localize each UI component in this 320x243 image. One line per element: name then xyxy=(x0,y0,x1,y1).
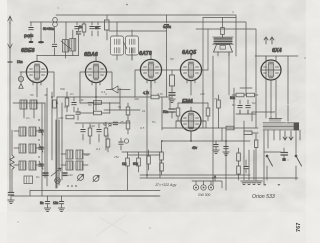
trimmer pot xyxy=(124,139,128,143)
svg-text:50+50u: 50+50u xyxy=(43,27,54,31)
wire screen bus xyxy=(56,15,236,56)
resistor R28 xyxy=(126,121,130,134)
capacitor C5 xyxy=(96,22,100,36)
svg-text:10n: 10n xyxy=(90,124,95,128)
capacitor C20 top mid xyxy=(164,15,168,56)
connector (3 pins) xyxy=(192,175,222,190)
svg-text:767: 767 xyxy=(296,223,302,232)
resistor R12 xyxy=(176,103,180,121)
svg-text:2n: 2n xyxy=(69,92,74,96)
svg-text:4,7k: 4,7k xyxy=(157,92,163,96)
wire B+ bus top xyxy=(30,22,246,95)
tube V2 6BA6 xyxy=(80,56,112,103)
svg-text:50: 50 xyxy=(88,103,92,107)
resistor R10 xyxy=(143,95,170,99)
capacitor C21 xyxy=(76,108,80,120)
resistor R2 xyxy=(105,15,110,40)
svg-text:25: 25 xyxy=(109,87,114,91)
wire xyxy=(264,151,281,153)
svg-text:100: 100 xyxy=(58,116,63,120)
wire xyxy=(151,56,170,130)
power transformer T3 xyxy=(252,56,300,185)
band filter row 2 xyxy=(14,144,44,153)
resistor R29 xyxy=(217,95,221,128)
ground (antenna earth) xyxy=(8,193,13,196)
svg-text:50n: 50n xyxy=(163,110,169,114)
svg-text:6AQ5: 6AQ5 xyxy=(182,50,197,56)
svg-text:GW 300: GW 300 xyxy=(198,193,211,197)
svg-text:25n: 25n xyxy=(113,155,119,159)
capacitor C3 xyxy=(75,22,79,34)
resistor R13 xyxy=(206,103,210,121)
band filter row 4 xyxy=(14,161,44,170)
svg-text:1M: 1M xyxy=(79,98,84,102)
resistor R1 xyxy=(82,22,86,36)
tube V3 6AT6 xyxy=(135,55,167,97)
diode detector xyxy=(106,86,130,93)
resistor R7 xyxy=(80,111,110,115)
capacitor C18 + ground xyxy=(244,160,248,173)
electrolytic caps xyxy=(43,173,48,175)
scan scratches xyxy=(96,97,305,236)
capacitor C19 xyxy=(119,138,123,150)
svg-text:6AT6: 6AT6 xyxy=(139,51,153,57)
svg-text:50: 50 xyxy=(170,57,174,61)
svg-text:1n: 1n xyxy=(79,25,83,29)
IF transformer T2 xyxy=(111,22,139,60)
resistor R8 xyxy=(88,124,92,144)
band filter row 1 xyxy=(14,127,44,136)
tube V6 EM4 magic eye xyxy=(176,107,206,141)
capacitor C1 xyxy=(29,22,34,43)
resistor R25 xyxy=(66,115,74,119)
capacitor C10 xyxy=(81,124,85,140)
svg-text:2n: 2n xyxy=(25,116,30,120)
antenna xyxy=(8,16,12,193)
svg-text:JT=+322 Agy: JT=+322 Agy xyxy=(154,183,176,187)
band filter row 3 xyxy=(61,150,90,159)
capacitor C11 xyxy=(97,124,101,142)
wire xyxy=(244,121,254,180)
resistor R17 xyxy=(160,148,164,163)
capacitor C8 + ground xyxy=(58,202,64,212)
tone pot xyxy=(93,175,99,181)
wire xyxy=(75,122,130,124)
svg-text:7k: 7k xyxy=(214,97,218,101)
capacitor C7 + ground xyxy=(44,202,50,212)
svg-text:50: 50 xyxy=(95,26,99,30)
tuning gang xyxy=(56,120,59,188)
resistor R27 xyxy=(126,103,130,121)
svg-text:2k: 2k xyxy=(141,109,146,113)
svg-text:22n: 22n xyxy=(67,173,73,177)
wire xyxy=(203,90,222,141)
resistor R19 xyxy=(237,148,241,166)
heater arrows xyxy=(283,131,293,140)
svg-text:0,1: 0,1 xyxy=(101,90,106,94)
wire xyxy=(122,152,162,155)
capacitor C22 mains xyxy=(281,148,288,161)
svg-text:8u: 8u xyxy=(36,175,40,179)
svg-text:0,5: 0,5 xyxy=(140,126,145,130)
resistor R11 xyxy=(170,70,175,90)
svg-text:12n: 12n xyxy=(53,201,59,205)
band filter row 3b xyxy=(61,161,88,170)
tube V5 6X4 xyxy=(261,56,281,119)
svg-text:0,1: 0,1 xyxy=(96,147,101,151)
resistor R24 xyxy=(106,134,110,152)
resistor R20 xyxy=(237,166,241,180)
svg-text:3k: 3k xyxy=(44,93,48,97)
EM4 wires xyxy=(162,103,258,141)
wire right HT riser xyxy=(196,29,298,128)
junction dots row xyxy=(67,185,77,187)
resistor R23 xyxy=(147,150,151,170)
wire detector bus xyxy=(147,90,162,178)
bottom left bus wires xyxy=(12,190,160,196)
resistor R16 xyxy=(254,134,258,180)
svg-text:5n: 5n xyxy=(152,120,156,124)
svg-text:50k: 50k xyxy=(133,162,139,166)
capacitor C16 + ground xyxy=(213,141,219,154)
tube V1 6BE6 xyxy=(20,55,54,97)
svg-text:50k: 50k xyxy=(84,153,89,157)
svg-text:1M: 1M xyxy=(200,92,205,96)
svg-text:8n: 8n xyxy=(40,201,44,205)
tube V4 6AQ5 xyxy=(167,55,208,95)
resistor R21 xyxy=(126,152,130,190)
svg-text:~: ~ xyxy=(278,183,280,187)
trimmer (double circle) xyxy=(53,18,58,27)
svg-text:50: 50 xyxy=(30,93,34,97)
svg-text:8u: 8u xyxy=(252,101,256,105)
wire xyxy=(236,88,256,114)
wire grid bus left xyxy=(13,88,143,186)
ground row xyxy=(241,181,247,185)
wafer switch block xyxy=(24,176,33,184)
capacitor C6 xyxy=(72,97,76,112)
volume pot xyxy=(77,174,83,180)
svg-text:50k: 50k xyxy=(60,87,65,91)
capacitor C17 + ground xyxy=(223,141,229,156)
svg-text:1n: 1n xyxy=(108,124,112,128)
resistor R3 xyxy=(53,100,57,108)
resistor R26 xyxy=(226,126,234,130)
mains switch S1 xyxy=(266,155,273,180)
svg-text:45v: 45v xyxy=(192,146,198,150)
wire AVC mid bus xyxy=(109,30,167,32)
svg-text:50k: 50k xyxy=(230,96,236,100)
svg-text:EM4: EM4 xyxy=(182,99,193,105)
pickup / phono input xyxy=(18,72,23,88)
junction dots column xyxy=(38,119,39,157)
svg-text:6BE6: 6BE6 xyxy=(21,48,35,54)
svg-text:(2u)50: (2u)50 xyxy=(24,34,33,38)
junction dots xyxy=(36,96,227,179)
oscillator coil L1 xyxy=(20,100,37,118)
resistor R22 xyxy=(137,152,141,172)
svg-text:1M: 1M xyxy=(122,162,127,166)
resistor R5 zigzag xyxy=(10,155,14,169)
svg-text:8u: 8u xyxy=(232,103,236,107)
svg-text:Dim: Dim xyxy=(17,60,23,64)
svg-text:6BA6: 6BA6 xyxy=(84,52,99,58)
wire AVC line xyxy=(42,97,62,196)
svg-text:~: ~ xyxy=(264,183,266,187)
resistor R9 xyxy=(104,122,108,150)
resistor R14 xyxy=(232,93,246,97)
switch contacts xyxy=(104,122,118,126)
resistor R18 xyxy=(160,163,164,175)
capacitor C2 xyxy=(38,22,44,43)
svg-text:4,7k: 4,7k xyxy=(143,91,149,95)
svg-text:0,1: 0,1 xyxy=(64,105,69,109)
svg-text:25: 25 xyxy=(119,120,124,124)
capacitor C15 xyxy=(246,100,250,114)
capacitor C13 xyxy=(169,109,175,118)
svg-text:6X4: 6X4 xyxy=(272,48,282,54)
dial lamp xyxy=(55,178,61,184)
svg-text:0,05u: 0,05u xyxy=(163,25,171,29)
oscillator coil T1 xyxy=(37,22,81,58)
resistor R6 xyxy=(88,101,110,113)
resistor R14b xyxy=(247,93,259,97)
svg-text:30n: 30n xyxy=(134,97,139,101)
capacitor C14 xyxy=(238,100,242,114)
capacitor C12 xyxy=(169,90,175,103)
value label smudges xyxy=(25,57,256,179)
B+ arrows xyxy=(264,37,274,44)
capacitor C4 xyxy=(90,22,94,36)
wire IF out xyxy=(80,48,140,110)
lower buses xyxy=(110,160,298,196)
svg-text:Orion 533: Orion 533 xyxy=(252,194,275,200)
mains switch S2 xyxy=(295,155,302,180)
svg-text:5k: 5k xyxy=(118,105,122,109)
resistor R15 xyxy=(244,131,258,135)
resistor R4 xyxy=(65,92,69,112)
output transformer + speaker SP xyxy=(203,18,236,96)
